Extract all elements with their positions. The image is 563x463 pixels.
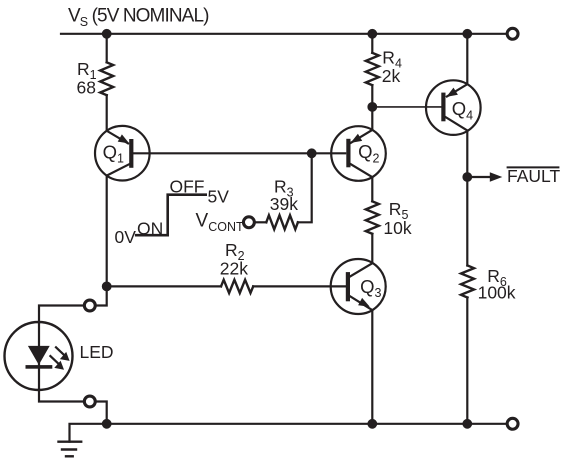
transistor Q1 (PNP) [95, 126, 150, 181]
label FAULT with overline [507, 166, 560, 186]
wire Q4 collector to FAULT node [466, 131, 468, 178]
junction dot ground node [102, 419, 112, 429]
wire node to Q4 base [372, 106, 441, 108]
svg-text:OFF: OFF [170, 176, 205, 196]
svg-text:FAULT: FAULT [507, 166, 560, 186]
svg-text:Q2: Q2 [358, 141, 379, 165]
svg-text:Q4: Q4 [452, 98, 473, 122]
junction dot VS/R4 [367, 29, 377, 39]
wire to ground stub [70, 424, 107, 442]
junction dot FAULT node [462, 172, 472, 182]
junction dot VS/R1 [102, 29, 112, 39]
transistor Q3 (NPN) [331, 259, 386, 314]
svg-text:39k: 39k [270, 194, 298, 214]
terminal VCONT open circle [243, 217, 254, 228]
wire Q3 emitter to bottom rail [371, 310, 373, 424]
terminal LED cathode open circle [84, 396, 95, 407]
wire FAULT node to R6 [466, 177, 468, 266]
wire R5 to Q2 collector [371, 177, 373, 201]
svg-text:VCONT: VCONT [196, 211, 244, 234]
wire Q2 emitter up to node [371, 107, 373, 130]
svg-text:10k: 10k [383, 218, 411, 238]
transistor Q2 (PNP) [331, 126, 386, 181]
wire cathode terminal to ground node [95, 402, 106, 424]
svg-text:Q3: Q3 [360, 276, 381, 300]
junction dot bottom rail / Q3 emitter [367, 419, 377, 429]
svg-text:5V: 5V [208, 186, 230, 206]
wire VS to R1 [106, 34, 108, 63]
LED [5, 322, 114, 390]
wire LED to cathode terminal [39, 390, 84, 402]
svg-text:LED: LED [80, 342, 114, 362]
wire R2 to Q3 base [253, 285, 346, 287]
svg-text:68: 68 [77, 77, 96, 97]
wire node to LED anode terminal [95, 286, 106, 305]
control waveform OFF/ON step [115, 176, 230, 247]
resistor R6 [461, 266, 516, 303]
wire bottom rail [107, 423, 507, 425]
svg-text:ON: ON [137, 218, 163, 238]
terminal LED anode open circle [84, 300, 95, 311]
svg-text:100k: 100k [478, 283, 516, 303]
resistor R4 [366, 48, 402, 87]
wire R1 to Q1 emitter [106, 95, 108, 131]
wire LED node to R2 [107, 285, 221, 287]
svg-text:2k: 2k [382, 66, 401, 86]
junction dot R4/Q4 base node [367, 102, 377, 112]
junction dot VS/Q4 emitter [462, 29, 472, 39]
svg-text:VS (5V NOMINAL): VS (5V NOMINAL) [68, 6, 209, 29]
wire VS to R4 [371, 34, 373, 53]
resistor R1 [77, 59, 114, 98]
junction dot bottom rail / R6 [462, 419, 472, 429]
ground [59, 442, 82, 457]
wire top VS rail [61, 33, 506, 35]
transistor Q4 (PNP) [426, 80, 481, 135]
wire VS rail to Q4 emitter [466, 34, 468, 84]
svg-text:0V: 0V [115, 227, 137, 247]
wire R6 to bottom rail [466, 298, 468, 424]
junction dot LED/R2 node [102, 282, 112, 292]
wire Q3 collector to R5 [371, 234, 373, 263]
resistor R5 [366, 199, 412, 238]
wire R4 to node [371, 85, 373, 107]
wire base node down to R3 [298, 153, 312, 222]
wire Q1 base to Q2 base [134, 152, 346, 154]
svg-text:Q1: Q1 [103, 141, 124, 165]
svg-text:22k: 22k [220, 259, 248, 279]
terminal VS open circle [507, 28, 518, 39]
junction dot base node [307, 148, 317, 158]
wire VCONT to R3 [255, 221, 267, 223]
resistor R3 [266, 177, 298, 230]
wire anode terminal to LED [39, 306, 84, 323]
FAULT arrow [467, 172, 502, 181]
wire Q1 collector down to LED node [106, 176, 108, 287]
terminal bottom right open circle [507, 418, 518, 429]
resistor R2 [220, 240, 253, 293]
